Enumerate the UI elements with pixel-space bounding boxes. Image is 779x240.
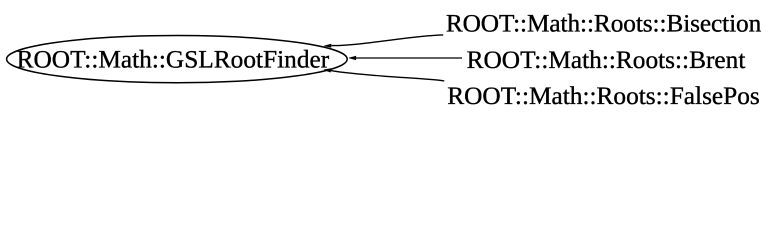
- svg-text:ROOT::Math::Roots::FalsePos: ROOT::Math::Roots::FalsePos: [447, 82, 760, 110]
- edge Brent->GSLRootFinder arrowhead: [349, 56, 356, 60]
- edge Bisection->GSLRootFinder arrowhead: [324, 44, 331, 47]
- svg-text:ROOT::Math::GSLRootFinder: ROOT::Math::GSLRootFinder: [17, 46, 330, 74]
- edge FalsePos->GSLRootFinder wire: [331, 71, 445, 81]
- svg-text:ROOT::Math::Roots::Brent: ROOT::Math::Roots::Brent: [467, 46, 746, 74]
- edge Bisection->GSLRootFinder wire: [331, 35, 443, 46]
- svg-text:ROOT::Math::Roots::Bisection: ROOT::Math::Roots::Bisection: [446, 10, 762, 38]
- node GSLRootFinder ellipse: [7, 36, 348, 83]
- edge FalsePos->GSLRootFinder arrowhead: [324, 69, 331, 73]
- edge Brent->GSLRootFinder wire: [356, 57, 463, 59]
